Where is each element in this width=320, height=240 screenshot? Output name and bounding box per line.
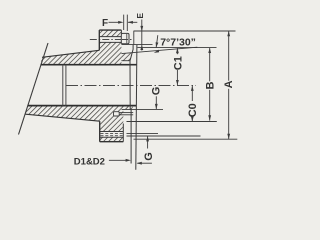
svg-text:D1&D2: D1&D2 <box>74 157 105 168</box>
F dimension arrow right <box>128 21 137 23</box>
hatched pilot boss upper section <box>121 52 133 60</box>
bore step vertical 1 <box>62 65 64 106</box>
dimension G lower <box>146 136 149 141</box>
flange lower bottom edge <box>100 141 124 143</box>
hatched flange upper section <box>99 30 121 64</box>
bore step vertical 2 <box>65 65 67 106</box>
main centerline <box>66 85 196 87</box>
outer taper edge upper <box>42 50 99 57</box>
flange upper left face <box>98 30 100 50</box>
svg-text:E: E <box>135 13 145 19</box>
pilot lower edge + extension line <box>122 108 163 110</box>
lower bolt hole channel (white) <box>100 132 124 138</box>
stud head inner line <box>126 34 128 43</box>
extension line stud top / A top <box>134 30 236 32</box>
extension line pilot top / B top <box>138 47 217 49</box>
svg-text:G: G <box>150 87 162 96</box>
outer taper edge lower <box>26 114 100 121</box>
bore lower line <box>28 105 137 107</box>
svg-text:G: G <box>143 152 155 161</box>
bolt centerline through stud head <box>122 39 132 41</box>
paper background <box>0 0 260 184</box>
mating flange face line <box>136 45 137 170</box>
svg-text:C0: C0 <box>187 103 199 117</box>
hatched flange lower section <box>100 106 124 142</box>
flange upper top edge <box>99 29 121 31</box>
left slanted end edge <box>19 43 49 135</box>
F extension line right <box>126 15 128 31</box>
counterbore edge line <box>121 60 130 62</box>
lower insert block <box>114 112 120 116</box>
dimension C0 <box>191 86 194 91</box>
lower insert shank line 2 <box>119 114 133 116</box>
hatched cone wall upper section <box>41 50 100 64</box>
hatched pilot boss lower section <box>123 106 133 110</box>
F extension line left <box>123 15 125 30</box>
svg-text:7°7’30”: 7°7’30” <box>160 36 196 48</box>
extension line bolt hidden 2 <box>127 135 201 137</box>
stud face projection vertical <box>133 31 135 45</box>
lower insert shank line 1 <box>119 112 133 114</box>
extension line bolt hidden 1 <box>127 132 159 134</box>
dimension B <box>208 48 211 53</box>
flange lower left face <box>99 121 101 142</box>
svg-text:B: B <box>204 82 216 90</box>
dimension A <box>227 31 230 36</box>
extension line stud head bottom <box>121 44 152 46</box>
angle dimension arrow upper <box>156 35 158 47</box>
svg-text:F: F <box>102 18 108 29</box>
angle dimension arrow lower <box>154 50 159 53</box>
hatched cone wall lower section <box>26 106 100 122</box>
flange lower right face <box>122 124 124 142</box>
svg-text:C1: C1 <box>173 56 185 70</box>
upper bolt hole centerline <box>90 39 122 41</box>
bore upper line <box>41 64 137 66</box>
pilot taper surface line (7deg) <box>121 47 197 53</box>
F dimension arrow left <box>109 21 122 23</box>
extension line A bottom <box>134 138 238 140</box>
lower bolt hidden lines <box>101 132 124 134</box>
upper bolt hole channel (white) <box>99 37 121 43</box>
extension line outer lower / B C0 bottom <box>127 121 217 123</box>
flange upper right face <box>120 30 122 33</box>
E leader and arrows <box>141 20 143 45</box>
dimension C1 <box>176 48 179 53</box>
wheel stud head <box>121 33 129 43</box>
hub right face line <box>130 45 133 164</box>
svg-text:A: A <box>223 80 235 88</box>
